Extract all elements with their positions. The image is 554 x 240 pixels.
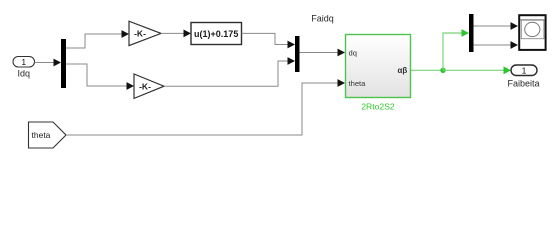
subsystem 2Rto2S2 <box>346 35 411 98</box>
wire D1 out2 to gain K2 <box>66 64 128 86</box>
svg-text:2Rto2S2: 2Rto2S2 <box>361 102 395 112</box>
svg-text:-K-: -K- <box>134 29 146 39</box>
From tag theta <box>29 122 67 148</box>
svg-text:dq: dq <box>349 48 357 57</box>
svg-text:Faibeita: Faibeita <box>507 79 539 89</box>
arrowhead at K2 input <box>127 82 135 90</box>
svg-text:u(1)+0.175: u(1)+0.175 <box>194 29 238 39</box>
output port Out1 "Faibeita" <box>511 65 537 76</box>
svg-text:-K-: -K- <box>139 81 151 91</box>
green arrowhead at D2 input <box>462 29 470 37</box>
arrowhead at scope in2 <box>511 41 519 49</box>
green wire alpha-beta output to junction <box>411 69 443 71</box>
wire M1 to subsystem dq input <box>300 52 339 54</box>
demux D2 <box>469 14 474 52</box>
wire D1 out1 to gain K1 <box>66 34 123 48</box>
wire K2 to mux M1 in2 <box>164 61 289 86</box>
wire K1 to Fcn <box>161 32 185 34</box>
arrowhead at D1 input <box>54 59 62 67</box>
arrowhead at M1 in2 <box>288 57 296 65</box>
arrowhead at K1 input <box>122 30 130 38</box>
green arrowhead at outport <box>504 66 512 74</box>
demux D1 <box>61 39 66 88</box>
arrowhead at M1 in1 <box>288 41 296 49</box>
svg-text:Idq: Idq <box>17 69 30 79</box>
arrowhead at theta input <box>338 79 346 87</box>
input port In1 "Idq" <box>13 57 35 68</box>
svg-text:1: 1 <box>522 66 527 76</box>
wire D2 out2 to scope in2 <box>474 44 512 46</box>
Fcn block u(1)+0.175 <box>191 23 242 45</box>
svg-text:theta: theta <box>349 79 367 88</box>
junction dot <box>440 68 445 73</box>
wire D2 out1 to scope in1 <box>474 25 512 27</box>
arrowhead at dq input <box>338 49 346 57</box>
svg-text:1: 1 <box>21 57 26 67</box>
green wire junction to outport Faibeita <box>443 69 504 71</box>
wire theta tag to subsystem theta input <box>66 83 339 135</box>
mux M1 <box>295 36 300 72</box>
wire Fcn to mux M1 in1 <box>242 33 289 44</box>
green wire junction up to demux D2 <box>443 33 462 70</box>
arrowhead at Fcn input <box>184 30 192 38</box>
wire Idq to demux D1 <box>35 62 56 64</box>
svg-text:Faidq: Faidq <box>311 14 334 24</box>
scope block <box>519 15 545 50</box>
gain K1 (-K-) <box>129 21 161 45</box>
arrowhead at scope in1 <box>511 22 519 30</box>
svg-text:αβ: αβ <box>397 66 407 75</box>
svg-text:theta: theta <box>32 130 51 140</box>
gain K2 (-K-) <box>134 74 164 98</box>
